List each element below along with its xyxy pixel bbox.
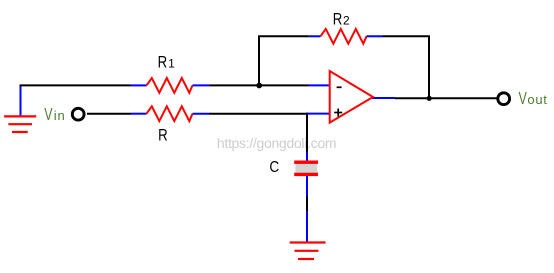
wire: Vin to R (87, 113, 131, 115)
node A: feedback junction on minus net (256, 83, 262, 89)
op-amp U1 (307, 71, 395, 123)
wire: op-amp output to Vout (395, 97, 497, 99)
svg-text:V: V (519, 89, 527, 109)
svg-text:2: 2 (343, 13, 350, 27)
capacitor C (294, 161, 318, 177)
node B: output junction (427, 96, 432, 101)
ground GND2 (bottom) (290, 243, 326, 260)
wire: capacitor to bottom ground (306, 176, 308, 243)
wire: plus-input branch down to capacitor (306, 113, 308, 161)
label R2 (333, 10, 350, 29)
label R1 (158, 53, 176, 72)
wire: left ground to R1 (minus-input net) (20, 84, 131, 86)
svg-text:in: in (54, 108, 66, 123)
ground GND1 (left) (4, 85, 36, 132)
resistor R1 (131, 78, 210, 93)
label Vout (519, 89, 548, 109)
svg-text:1: 1 (168, 57, 175, 71)
wire: junction up to R2 (259, 36, 309, 85)
wire: R2 down to output node (383, 36, 430, 98)
wire: R1 to op-amp minus input (209, 84, 308, 86)
svg-text:C: C (269, 159, 279, 176)
terminal Vout (498, 93, 510, 105)
svg-text:R: R (158, 53, 168, 72)
svg-text:out: out (527, 92, 547, 107)
svg-text:V: V (44, 105, 52, 125)
terminal Vin (72, 108, 84, 120)
svg-text:R: R (158, 126, 168, 145)
label Vin (44, 105, 65, 125)
wire: R to plus-input corner (209, 113, 308, 115)
svg-text:https://gongdoli.com: https://gongdoli.com (217, 135, 336, 151)
resistor R2 (309, 29, 383, 44)
resistor R (131, 106, 209, 121)
svg-text:R: R (333, 10, 343, 29)
